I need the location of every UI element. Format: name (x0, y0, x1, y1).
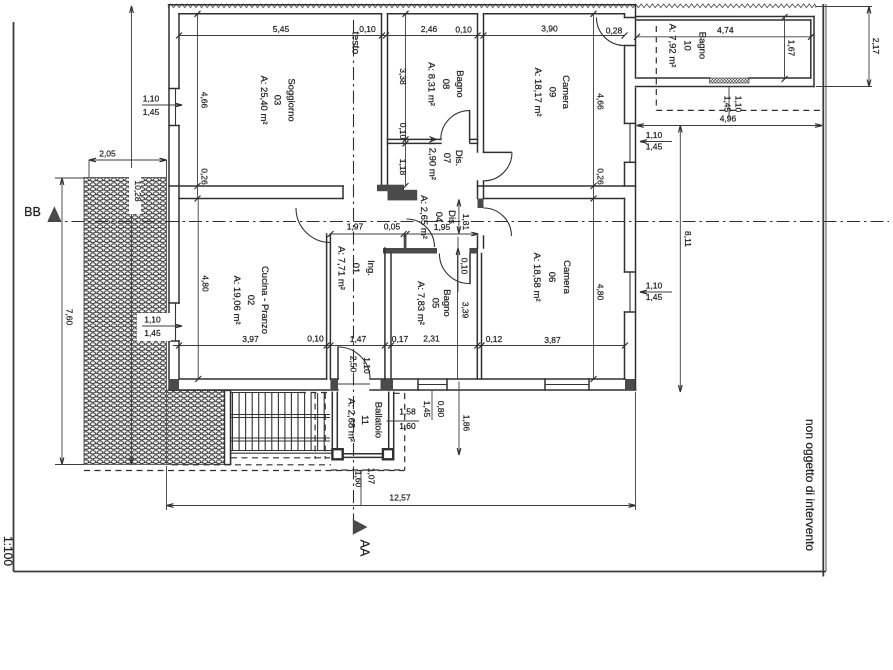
svg-text:2,50: 2,50 (349, 356, 359, 373)
svg-text:1:100: 1:100 (1, 536, 15, 566)
svg-text:3,87: 3,87 (544, 335, 561, 345)
wing bottom wall (Bagno10) (637, 77, 710, 79)
Bagno05 door jamb piece (469, 248, 477, 254)
svg-text:1,45: 1,45 (422, 401, 432, 418)
svg-text:Cucina - Pranzo: Cucina - Pranzo (259, 266, 270, 334)
svg-text:A: 18,17 m²: A: 18,17 m² (532, 67, 543, 116)
bottom interior dimension chain (173, 345, 625, 347)
dim chain Ing top 1.97/0.05/1.95 (331, 233, 479, 235)
dim chain right inside Camera09 4.66/0.26 (593, 14, 595, 199)
svg-text:0,05: 0,05 (384, 222, 401, 232)
svg-text:1,10: 1,10 (362, 357, 372, 374)
svg-text:05: 05 (430, 298, 441, 309)
svg-text:0,80: 0,80 (436, 401, 446, 418)
svg-text:7,60: 7,60 (65, 309, 75, 326)
top exterior wall (169, 4, 636, 6)
svg-text:Bagno: Bagno (454, 70, 465, 97)
svg-text:02: 02 (245, 295, 256, 306)
dims below ballatoio 1.60/1.07 (360, 471, 362, 506)
svg-text:1,18: 1,18 (398, 159, 408, 176)
wall below Dis07 (388, 190, 418, 201)
entry door threshold (338, 383, 370, 385)
window W7 center extension line (728, 87, 730, 119)
wing right wall (Bagno10) (813, 17, 815, 87)
svg-text:A: 8,31 m²: A: 8,31 m² (426, 62, 437, 106)
wing top wall (Bagno10) (636, 16, 815, 18)
section axis BB (horizontal dash-dot) (48, 221, 889, 223)
svg-text:AA: AA (358, 540, 372, 557)
svg-text:2,05: 2,05 (99, 149, 116, 159)
window W3 bottom wall (Bagno05) (417, 379, 419, 390)
svg-text:Soggiorno: Soggiorno (286, 78, 297, 121)
svg-text:0,12: 0,12 (486, 334, 503, 344)
stub wall 0.05 (404, 234, 407, 249)
wall Bagno08/Camera09 upper (477, 14, 479, 152)
svg-text:06: 06 (546, 272, 557, 283)
ballatoio post left (332, 449, 342, 459)
terrace hatched area (bottom strip) (167, 391, 232, 465)
svg-text:11: 11 (359, 415, 370, 425)
svg-text:A: 2,68 m²: A: 2,68 m² (346, 398, 357, 442)
terrace hatched area (vertical strip) (84, 178, 167, 465)
door D3 swing arc (441, 111, 470, 140)
svg-text:1,95: 1,95 (434, 222, 451, 232)
door D7 (Ing to Dis04) swing arc (407, 219, 435, 247)
door D6 (Bagno05) leaf (469, 254, 471, 284)
svg-text:Ballatoio: Ballatoio (373, 402, 384, 438)
bottom wall pier left of entry door (330, 379, 338, 390)
svg-text:4,80: 4,80 (596, 284, 606, 301)
svg-text:1,45: 1,45 (646, 142, 663, 152)
svg-text:1,10: 1,10 (646, 130, 663, 140)
window W6 right wall (Camera06) (625, 271, 636, 273)
svg-text:A: 18,58 m²: A: 18,58 m² (531, 252, 542, 301)
svg-text:08: 08 (440, 79, 451, 90)
svg-text:10,28: 10,28 (133, 180, 143, 202)
svg-text:0,10: 0,10 (307, 334, 324, 344)
svg-text:12,57: 12,57 (389, 493, 411, 503)
section marker AA triangle (353, 519, 368, 534)
svg-text:8,11: 8,11 (683, 231, 693, 247)
svg-text:10: 10 (682, 40, 693, 51)
wall Bagno08/Dis07 (horizontal) (388, 138, 442, 140)
svg-text:04: 04 (433, 212, 444, 223)
dim 4.80 right (Camera06) (593, 199, 595, 380)
stair outline bottom (231, 450, 332, 452)
svg-text:1,67: 1,67 (787, 40, 797, 57)
svg-text:A: 7,71 m²: A: 7,71 m² (336, 246, 347, 290)
svg-text:A: 25,40 m²: A: 25,40 m² (258, 75, 269, 124)
dim chain left inside Soggiorno 4.66/0.26 (197, 14, 199, 199)
door D4 (Soggiorno to Ing) swing arc (296, 208, 331, 243)
svg-text:Bagno: Bagno (697, 32, 708, 59)
svg-text:1,45: 1,45 (646, 292, 663, 302)
svg-text:1,60: 1,60 (354, 471, 364, 488)
svg-text:2,17: 2,17 (871, 38, 881, 55)
dim 12.57 (167, 505, 636, 507)
svg-text:4,96: 4,96 (720, 114, 737, 124)
dim 1.31 (Dis04) (458, 200, 460, 234)
svg-text:4,80: 4,80 (201, 275, 211, 292)
svg-text:A: 2,90 m²: A: 2,90 m² (427, 136, 438, 180)
svg-text:1,10: 1,10 (646, 281, 663, 291)
svg-text:Dis.: Dis. (453, 150, 464, 166)
svg-text:1,10: 1,10 (143, 94, 160, 104)
svg-text:1,97: 1,97 (347, 222, 364, 232)
dim 7.60 (terrace height) (61, 178, 63, 465)
wall Dis04/Camera06 segment (477, 236, 479, 248)
middle wall below Camera09 (478, 185, 636, 187)
svg-text:0,26: 0,26 (596, 168, 606, 185)
svg-text:1,07: 1,07 (367, 468, 377, 485)
door D6 swing arc (439, 254, 469, 284)
entry door D8 swing arc (338, 347, 370, 379)
dim 8.11 (679, 126, 681, 393)
svg-text:0,26: 0,26 (200, 168, 210, 185)
door D2 (Dis07 to Camera09) leaf (484, 151, 512, 153)
svg-text:Bagno: Bagno (441, 289, 452, 316)
svg-text:Ing.: Ing. (365, 260, 376, 276)
svg-text:A: 7,83 m²: A: 7,83 m² (415, 281, 426, 325)
dashed outline above wing (655, 26, 657, 110)
ballatoio dashed surround (404, 393, 406, 470)
wall Ing/Cucina (326, 234, 328, 379)
svg-text:1,45: 1,45 (143, 107, 160, 117)
svg-text:1,86: 1,86 (462, 415, 472, 432)
svg-text:09: 09 (547, 87, 558, 98)
wall Dis04/Camera06 upper jamb (478, 199, 484, 209)
svg-text:non oggetto di intervento: non oggetto di intervento (803, 419, 817, 551)
door D3 (Dis07 to Bagno08) leaf (469, 111, 471, 142)
svg-text:3,39: 3,39 (461, 302, 471, 319)
ballatoio post right (383, 449, 393, 459)
svg-text:0,28: 0,28 (606, 26, 623, 36)
bottom wall corner pier right (625, 379, 636, 390)
wall Camera06 left (Bagno05/Camera06) (476, 248, 478, 379)
window W5 right wall (Camera09) (625, 122, 636, 124)
svg-text:1,60: 1,60 (399, 421, 416, 431)
svg-text:A: 19,06 m²: A: 19,06 m² (231, 275, 242, 324)
wall Bagno08/Camera09 lower (477, 181, 479, 199)
dim 4.80 left (Cucina) (197, 199, 199, 380)
svg-text:4,66: 4,66 (200, 92, 210, 109)
svg-text:1,47: 1,47 (350, 334, 367, 344)
bottom exterior wall (179, 378, 327, 380)
svg-text:4,66: 4,66 (596, 93, 606, 110)
svg-text:1,10: 1,10 (144, 315, 161, 325)
ballatoio left wall (331, 392, 333, 449)
svg-text:0,10: 0,10 (359, 24, 376, 34)
middle wall below Soggiorno (169, 185, 343, 187)
dashed lines below stair (231, 457, 330, 459)
svg-text:0,10: 0,10 (460, 258, 470, 275)
stair dashed cut lines (314, 393, 316, 459)
svg-text:03: 03 (272, 95, 283, 106)
svg-text:A: 2,65 m²: A: 2,65 m² (418, 195, 429, 239)
dim 2.05 (terrace width) (89, 159, 167, 161)
svg-text:Camera: Camera (561, 260, 572, 295)
svg-text:2,31: 2,31 (423, 334, 440, 344)
door D1 swing arc (597, 18, 625, 46)
right exterior wall of main building (635, 5, 637, 78)
svg-text:BB: BB (24, 205, 41, 219)
left exterior wall (168, 5, 170, 390)
dim 3.39 (Bagno05 height) (457, 254, 459, 380)
dim 2.17 (868, 7, 870, 87)
sheet frame left border (13, 22, 15, 572)
dim 10.28 (131, 6, 133, 465)
svg-text:07: 07 (441, 153, 452, 164)
svg-text:4,74: 4,74 (717, 25, 734, 35)
svg-text:3,97: 3,97 (242, 334, 259, 344)
property boundary line right (822, 4, 824, 577)
window W2 left wall (Cucina) (169, 302, 179, 304)
svg-text:Camera: Camera (560, 75, 571, 110)
dim 1.86 (458, 382, 460, 456)
stair treads (232, 393, 234, 451)
Bagno05 top wall (383, 248, 437, 254)
dim 0.10 (Bagno05 wall) (457, 237, 459, 292)
svg-text:5,45: 5,45 (273, 24, 290, 34)
stair outline top (231, 392, 300, 394)
door D5 (Dis04 to Camera06) swing arc (484, 208, 512, 236)
top dimension chain (179, 35, 625, 37)
entry door D8 leaf (337, 347, 339, 379)
dim 4.74 line already top; dim 1.67 (Bagno10) (784, 17, 786, 79)
bottom wall pier right of entry door (381, 379, 394, 390)
dim 4.96 (637, 125, 822, 127)
stair stringers (231, 414, 330, 416)
svg-text:1,31: 1,31 (461, 214, 471, 231)
svg-text:0,10: 0,10 (398, 123, 408, 140)
demolition zigzag along top wall (168, 4, 816, 8)
sheet frame bottom border (14, 571, 827, 573)
svg-text:0,17: 0,17 (392, 334, 409, 344)
window W1 left wall (Soggiorno) (169, 88, 179, 90)
section axis AA (vertical dash-dot) (353, 20, 355, 520)
svg-text:2,46: 2,46 (421, 24, 438, 34)
svg-text:3,90: 3,90 (541, 24, 558, 34)
dim chain Bagno08 3.38/0.10/1.18 (405, 14, 407, 186)
window W7 wing bottom wall crosshatch (710, 78, 750, 83)
ballatoio railing (343, 453, 382, 455)
door D1 jambs (Camera09 to Bagno10) (625, 17, 636, 19)
svg-text:1,58: 1,58 (399, 407, 416, 417)
svg-text:3,38: 3,38 (398, 68, 408, 85)
svg-text:A: 7,92 m²: A: 7,92 m² (667, 24, 678, 68)
svg-text:0,10: 0,10 (455, 25, 472, 35)
svg-text:01: 01 (350, 263, 361, 274)
door D2 swing arc (484, 152, 513, 181)
wall cap below Bagno08 (377, 185, 404, 192)
white backing for W2 labels (137, 313, 171, 341)
ballatoio right wall (388, 392, 390, 448)
wall Ing/Bagno05 (384, 248, 386, 379)
stair left wall (225, 391, 231, 465)
window W4 bottom wall (Camera06) (544, 379, 546, 390)
wall Soggiorno/Bagno08 (381, 14, 383, 185)
section marker BB triangle (47, 206, 61, 222)
svg-text:1,45: 1,45 (144, 328, 161, 338)
bottom wall corner pier left (169, 379, 180, 390)
